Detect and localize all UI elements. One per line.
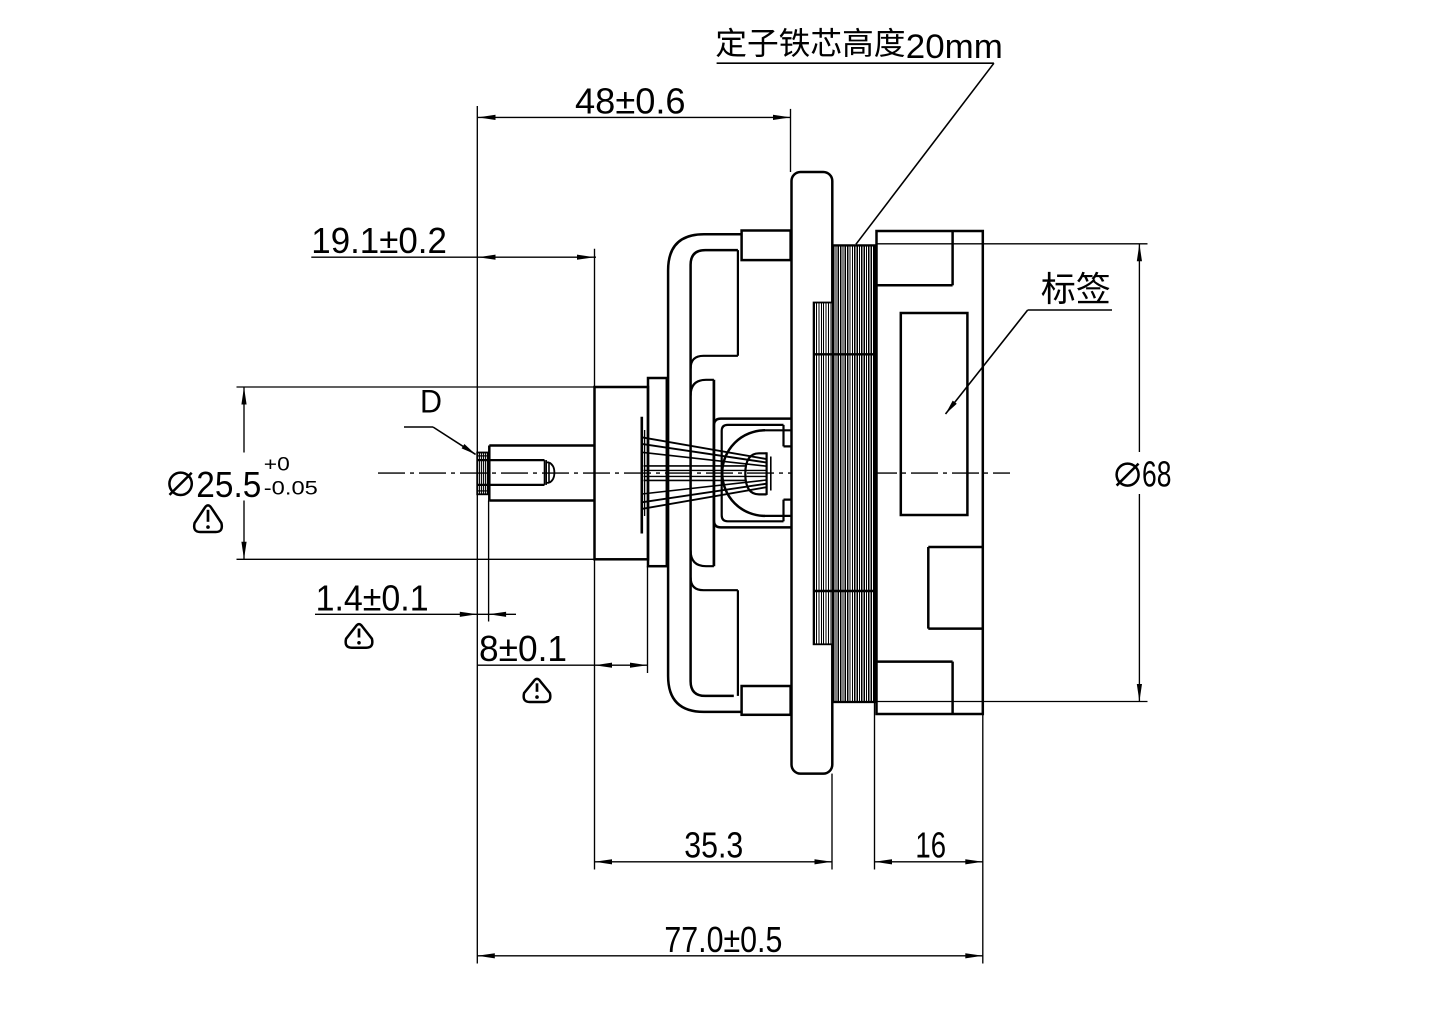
bearing housing semicircle: [722, 430, 791, 516]
leader note: stator core height 20mm: [716, 28, 1002, 245]
leader note: D (shaft flat): [404, 384, 476, 455]
bearing boss inner: [722, 425, 784, 521]
rotor spoke lines (lower): [642, 480, 767, 509]
rotor shaft lines through hub: [644, 466, 767, 481]
stator block outlines: [814, 245, 875, 702]
end bell mounting lip (bottom): [742, 686, 791, 715]
shaft D-cut flat lines: [477, 460, 546, 485]
svg-text:8±0.1: 8±0.1: [479, 628, 567, 669]
dimension 1.4±0.1: [315, 501, 516, 622]
sleeve bearing: [745, 452, 771, 495]
end bell interior step (bottom): [691, 550, 738, 696]
end bell inner contour: [691, 250, 738, 696]
shaft tip chamfer: [546, 462, 554, 482]
svg-text:20mm: 20mm: [906, 28, 1003, 66]
rear housing step (top-left): [877, 231, 953, 285]
label recess rectangle: [901, 313, 968, 515]
end bell outer contour: [668, 234, 742, 712]
centerline (shaft axis, dash-dot): [378, 472, 1010, 474]
end bell interior step (top): [691, 250, 738, 396]
svg-text:D: D: [420, 384, 442, 420]
svg-text:16: 16: [915, 825, 946, 866]
dimension 8±0.1: [477, 559, 647, 869]
stator windings and laminated core (hatched): [814, 245, 875, 702]
leader note: label (标签): [946, 272, 1113, 414]
rotor chamber wall: [713, 380, 716, 566]
rear housing outline: [877, 231, 983, 714]
dimension ⌀25.5 +0/-0.05: [169, 387, 594, 559]
dimension 19.1±0.2: [311, 220, 596, 387]
rotor spoke lines (upper): [642, 437, 767, 466]
shaft knurled end section: [477, 453, 488, 495]
dimension 77.0±0.5: [477, 714, 983, 964]
warning symbol (1.4): [346, 624, 373, 648]
svg-text:25.5: 25.5: [196, 464, 261, 505]
svg-text:77.0±0.5: 77.0±0.5: [664, 919, 782, 960]
mounting flange (dia 25.5): [595, 387, 649, 559]
dimension 48±0.6: [478, 80, 791, 172]
mounting plate: [792, 172, 833, 774]
svg-text:19.1±0.2: 19.1±0.2: [311, 220, 447, 261]
rear housing connector recess: [928, 547, 983, 629]
svg-text:68: 68: [1142, 453, 1171, 494]
svg-text:48±0.6: 48±0.6: [575, 80, 686, 121]
svg-text:-0.05: -0.05: [264, 478, 318, 499]
svg-text:35.3: 35.3: [684, 825, 743, 866]
stator bore lines: [784, 446, 814, 499]
warning symbol (dia 25.5): [194, 505, 222, 532]
rotor cup left edge: [642, 417, 645, 534]
rear housing step (bottom-left): [877, 662, 953, 714]
dimension 35.3: [595, 774, 833, 870]
extension line (shaft end face): [476, 106, 478, 964]
end bell mounting lip (top): [742, 231, 791, 261]
flange collar: [648, 378, 667, 566]
bearing boss outer: [714, 419, 792, 528]
svg-text:1.4±0.1: 1.4±0.1: [316, 577, 429, 618]
svg-text:+0: +0: [264, 455, 290, 476]
dimension ⌀68: [877, 244, 1172, 702]
dimension 16: [875, 702, 983, 870]
shaft body (dia 8): [489, 446, 594, 501]
warning symbol (8): [524, 679, 551, 702]
